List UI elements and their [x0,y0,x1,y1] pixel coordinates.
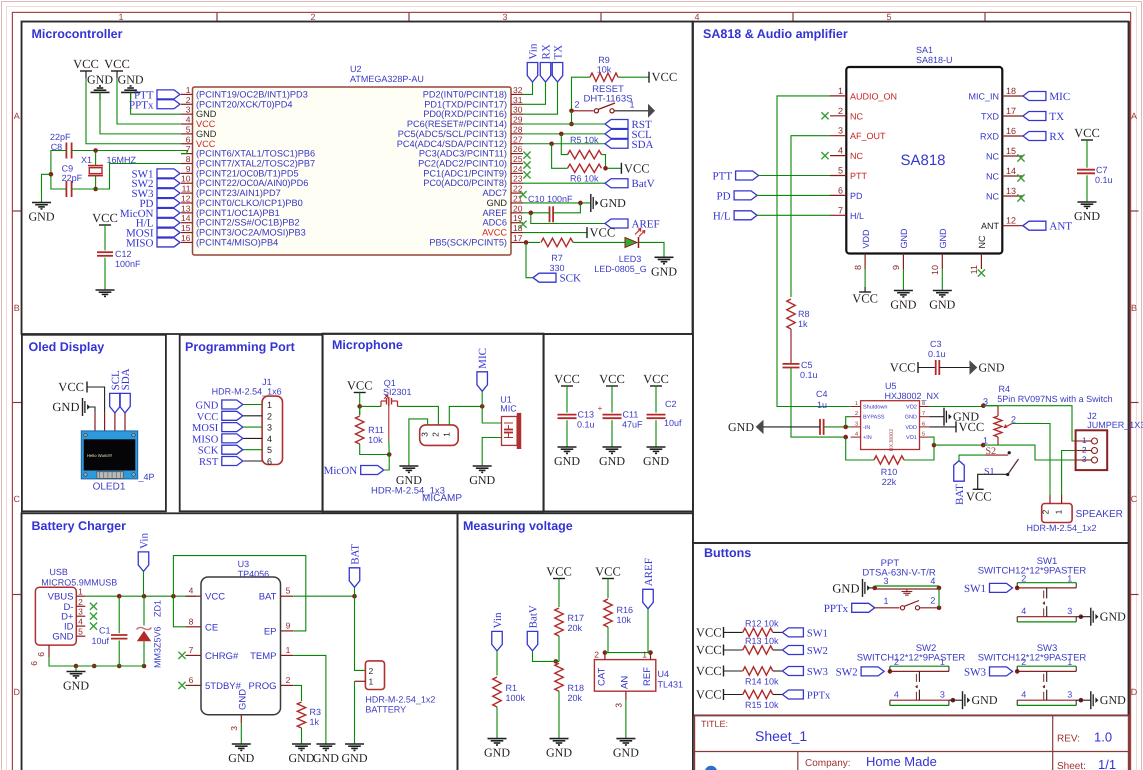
svg-text:3: 3 [883,576,888,586]
wire C12 to ground [104,258,106,290]
svg-text:R3: R3 [310,707,322,717]
wire Vin to R1 [496,651,498,676]
svg-text:1: 1 [883,596,888,606]
USB shell pin 6 [48,645,50,657]
svg-text:R11: R11 [368,425,384,435]
connector J2 JUMPER_1X3 [1076,430,1108,470]
svg-text:3: 3 [1067,690,1072,700]
svg-text:MICAMP: MICAMP [422,493,462,504]
svg-text:8: 8 [922,401,925,407]
svg-text:PPTx: PPTx [807,691,831,702]
port flag PTT [736,171,759,180]
svg-text:MISO: MISO [126,237,154,249]
junction [352,594,357,599]
capacitor C12 100nF [97,251,113,253]
net flag BatV (measuring) [527,631,538,651]
svg-text:SCK: SCK [560,273,581,285]
svg-text:23: 23 [513,174,523,184]
junction [888,669,893,674]
net flag BAT (audio) [954,461,965,482]
svg-text:(PCINT2/SS#/OC1B)PB2: (PCINT2/SS#/OC1B)PB2 [196,218,300,228]
net flag AREF (measuring) [643,589,654,609]
no-connect X SA1 pin2 [821,112,828,119]
no-connect X pin26 [523,152,530,159]
svg-text:4: 4 [189,586,194,596]
wire SW2 to gnd [949,699,963,701]
svg-text:22k: 22k [882,477,897,487]
svg-text:AREF: AREF [482,208,507,218]
svg-text:VO1: VO1 [906,435,917,441]
svg-text:R9: R9 [598,55,610,65]
svg-text:ANT: ANT [981,221,1000,231]
port flag Vin [527,63,538,83]
U2 pin 31 PD1(TXD/PCINT17) [511,103,523,105]
svg-text:GND: GND [643,454,669,468]
wire TX to pin30 [523,82,558,114]
svg-text:31: 31 [513,95,523,105]
svg-text:GND: GND [196,129,217,139]
net flag BatV [605,179,628,188]
SA1 pin 14 NC [1002,175,1023,177]
no-connect X SA1 pin14 [1017,174,1024,181]
junction [981,443,986,448]
U2 pin 13 (PCINT1/OC1A)PB1 [181,212,193,214]
svg-text:Sheet_1: Sheet_1 [755,728,807,744]
U3 pin 1 TEMP [281,654,294,656]
U5 pin 8 VO2 [920,406,930,408]
svg-text:SPEAKER: SPEAKER [1076,509,1123,520]
svg-text:8: 8 [189,616,194,626]
section box Battery Charger [22,513,458,770]
net flag SW2 to pin 10 [157,179,180,188]
net flag MISO (J1) [222,434,243,443]
svg-text:1.0: 1.0 [1094,730,1112,745]
svg-text:BYPASS: BYPASS [863,415,885,421]
svg-text:MIC: MIC [477,348,489,369]
net flag RST (J1) [222,457,243,466]
svg-text:1: 1 [1067,573,1072,583]
svg-text:VCC: VCC [643,372,669,386]
svg-text:13: 13 [1006,186,1016,196]
svg-text:18: 18 [1006,86,1016,96]
SA1 pin 12 ANT [1002,225,1023,227]
wire VCC to C12 [104,225,106,250]
wire Vin to pin32 [523,82,533,94]
svg-text:GND: GND [979,361,1005,375]
connector MICAMP HDR-M-2.54_1x3 [420,425,459,446]
svg-text:VCC: VCC [696,643,722,657]
svg-text:10uf: 10uf [91,636,109,646]
ground below U4 [616,738,635,740]
svg-text:GND: GND [972,693,998,707]
svg-text:VCC: VCC [196,139,216,149]
ground below C12 [96,289,115,291]
U3 pin 5 BAT [281,595,294,597]
capacitor C9 22pF [65,181,67,197]
svg-text:PPTx: PPTx [129,99,154,111]
wire R16 to TL431 and AREF [605,652,651,654]
switch SW2 SWITCH12*12*9PASTER [890,665,949,667]
svg-text:R5 10k: R5 10k [570,135,599,145]
U2 pin 29 PC6(RESET#/PCINT14) [511,123,523,125]
svg-text:25: 25 [513,154,523,164]
VCC flag at pin18 [586,227,588,238]
svg-text:U4: U4 [658,669,670,679]
junction [843,435,848,440]
U2 pin 16 (PCINT4/MISO)PB4 [181,241,193,243]
svg-text:GND: GND [728,420,754,434]
wire reset switch to gnd [615,110,649,112]
svg-text:C12: C12 [115,249,132,259]
wire battery pin1 to ground [354,681,356,744]
svg-text:4: 4 [1021,606,1026,616]
GND power symbol (left stack 2) [121,91,140,93]
svg-text:C9: C9 [62,164,74,174]
capacitor C2 10uf [647,414,666,416]
svg-text:GND: GND [599,454,625,468]
svg-text:VDD: VDD [905,425,917,431]
svg-text:RXD: RXD [980,132,1000,142]
wire VCC to C2 [655,386,657,413]
svg-text:MIC: MIC [500,404,517,414]
resistor R10 22k feedback [846,437,874,460]
svg-text:Microcontroller: Microcontroller [32,27,123,41]
net flag SW3 to pin 11 [157,189,180,198]
svg-text:MISO: MISO [192,434,219,445]
svg-text:GND: GND [600,196,626,210]
wire pin27 to SDA flag [523,143,605,145]
VCC flag at U5 pin6 [929,426,956,428]
svg-text:3: 3 [940,690,945,700]
U4 pin2 CAT stub [604,653,606,660]
wire XTAL2 net: C9 to pin8 [72,163,181,189]
wire pin29 to RST flag [523,123,605,125]
VCC above R16 [602,578,614,580]
svg-text:VCC: VCC [197,412,219,423]
wire MICAMP pin1 to mic node [449,406,482,425]
svg-text:1: 1 [642,650,647,660]
wire VO1 to output node [929,437,983,445]
svg-text:2: 2 [930,596,935,606]
SA1 pin 10 GND [941,254,943,270]
SA1 pin 11 NC [980,254,982,270]
svg-text:SW3: SW3 [807,667,828,678]
svg-text:GND: GND [613,746,639,760]
section box Oled Display [22,335,166,512]
svg-text:Programming Port: Programming Port [185,340,296,354]
svg-text:Vin: Vin [139,533,151,549]
svg-text:BatV: BatV [528,605,540,628]
U2 pin 22 ADC7 [511,192,523,194]
wire MICAMP pin3 to ground [409,419,428,466]
U2 pin 20 AREF [511,212,523,214]
svg-text:3: 3 [1067,606,1072,616]
svg-text:7: 7 [838,205,843,215]
svg-text:AN: AN [620,676,631,689]
ground below C2 [647,446,666,448]
svg-text:2: 2 [1082,446,1087,455]
svg-text:AREF: AREF [632,219,660,231]
wire C8/C9 left side [51,151,67,190]
svg-text:2: 2 [78,597,83,607]
svg-text:(PCINT6/XTAL1/TOSC1)PB6: (PCINT6/XTAL1/TOSC1)PB6 [196,149,315,159]
wire VCC down to node [359,393,361,416]
VCC above C11 [606,385,618,387]
svg-text:NC: NC [986,152,999,162]
svg-text:USB: USB [49,567,68,577]
port flag PD [734,191,757,200]
wire GND to oled pin [88,407,95,413]
svg-text:C13: C13 [578,410,595,420]
svg-text:ZD1: ZD1 [153,600,163,617]
wire VDD to VCC [864,269,866,287]
svg-text:7: 7 [922,411,925,417]
svg-text:SA818 & Audio amplifier: SA818 & Audio amplifier [703,27,848,41]
svg-text:30: 30 [513,105,523,115]
wire pin21 GND rail [523,202,590,204]
svg-text:2: 2 [1021,573,1026,583]
junction [1079,698,1084,703]
USB pin 1 VBUS [76,595,85,597]
wire AREF down [647,609,649,653]
switch SW1 SWITCH12*12*9PASTER [1017,582,1076,584]
svg-text:LED3: LED3 [619,254,642,264]
svg-text:B: B [14,303,20,313]
wire C2 to ground [655,420,657,447]
svg-text:R10: R10 [881,467,898,477]
svg-text:3: 3 [78,607,83,617]
no-connect X STDBY# [178,682,185,689]
svg-text:HDR-M-2.54_1x6: HDR-M-2.54_1x6 [212,387,282,397]
svg-text:SW2: SW2 [807,646,828,657]
svg-text:4: 4 [930,576,935,586]
net flag SW3 (button) [990,667,1013,676]
junction [387,452,392,457]
section box Measuring voltage [458,513,693,770]
wire GND to C4 [763,426,820,428]
ground below battery connector [345,743,364,745]
U2 pin 26 PC3(ADC3/PCINT11) [511,153,523,155]
svg-text:TP4056: TP4056 [238,569,270,579]
net flag MISO to pin 16 [157,238,180,247]
net flag ANT at pin12 [1023,221,1046,230]
svg-text:DHT-1163S: DHT-1163S [584,94,633,105]
GND flag at pin21 [590,194,592,212]
svg-text:(PCINT20/XCK/T0)PD4: (PCINT20/XCK/T0)PD4 [196,99,293,109]
svg-text:1: 1 [983,436,988,446]
wire BAT to S2 [959,455,986,461]
svg-text:H/L: H/L [850,211,864,221]
svg-text:PD1(TXD/PCINT17): PD1(TXD/PCINT17) [424,99,507,109]
U2 pin 11 (PCINT23/AIN1)PD7 [181,192,193,194]
no-connect X USB ID [90,623,97,630]
svg-text:PTT: PTT [850,171,868,181]
wire H/L to pin7 [757,214,830,216]
svg-text:3: 3 [229,726,239,731]
svg-text:VCC: VCC [205,592,225,603]
wire BAT net [293,595,354,597]
OLED1 module pins [94,413,96,431]
svg-text:GND: GND [890,298,916,312]
wire CE to VBUS [173,596,185,627]
svg-text:+: + [598,404,603,413]
svg-text:X1: X1 [81,155,92,165]
U3 pin 9 EP [281,630,294,632]
svg-text:22pF: 22pF [62,173,83,183]
svg-text:(PCINT22/OC0A/AIN0)PD6: (PCINT22/OC0A/AIN0)PD6 [196,178,308,188]
svg-text:SCK: SCK [198,446,219,457]
svg-text:(PCINT4/MISO)PB4: (PCINT4/MISO)PB4 [196,237,278,247]
svg-text:6: 6 [189,675,194,685]
svg-text:3: 3 [614,703,624,708]
U2 pin 21 GND [511,202,523,204]
svg-text:24: 24 [513,164,523,174]
svg-text:32: 32 [513,85,523,95]
U2 pin 12 (PCINT0/CLKO/ICP1)PB0 [181,202,193,204]
GND flag right of C3 [970,360,978,374]
section box decoupling caps [544,334,693,511]
port flag SDA (oled) [120,393,131,413]
wire VO2 to R4 pin3 [929,406,983,408]
svg-text:PC5(ADC5/SCL/PCINT13): PC5(ADC5/SCL/PCINT13) [398,129,507,139]
svg-text:C3: C3 [930,339,942,349]
GND flag at SW1 [1090,608,1092,626]
svg-text:HXJ8002_NX: HXJ8002_NX [885,391,940,401]
GND power symbol (left stack 1) [91,91,110,93]
no-connect X USB D- [90,603,97,610]
svg-text:R6 10k: R6 10k [570,174,599,184]
U2 pin 10 (PCINT22/OC0A/AIN0)PD6 [181,182,193,184]
U2 pin 27 PC4(ADC4/SDA/PCINT12) [511,143,523,145]
junctions on VBUS rail [117,594,122,599]
port flag MIC (microphone) [477,372,488,392]
svg-text:2: 2 [1021,657,1026,667]
U2 pin 17 PB5(SCK/PCINT5) [511,241,523,243]
SA1 pin 5 PTT [830,175,846,177]
net flag TX at pin17 [1023,112,1046,121]
easyeda logo [705,766,717,770]
SA1 pin 6 PD [830,194,846,196]
svg-text:H/L: H/L [713,210,731,222]
ground below R18 [550,738,569,740]
USB pin 3 D+ [76,615,85,617]
svg-text:3: 3 [983,397,988,407]
svg-text:3: 3 [420,432,430,437]
svg-text:R18: R18 [568,683,585,693]
shunt reference U4 TL431 [594,660,655,692]
GND flag left of C4 [756,420,764,434]
U3 pin 8 CE [186,626,202,628]
svg-text:CAT: CAT [597,668,608,686]
VCC below pin8 [859,291,871,293]
svg-text:10k: 10k [597,65,612,75]
junction [569,122,574,127]
battery connector HDR-M-2.54_1x2 [365,661,384,690]
svg-text:GND: GND [905,415,917,421]
wire C11 to ground [611,420,613,447]
net flag VCC (J1) [222,411,243,420]
resistor R17 20k [555,608,563,636]
VCC symbol (microphone) [354,392,366,394]
junction [843,425,848,430]
svg-text:GND: GND [196,109,217,119]
VCC power symbol (left stack 2) [111,70,123,72]
net flag PPTx to pin2 [157,100,180,109]
wire VCC2 to pin4 [116,71,118,78]
junction [357,404,362,409]
svg-text:AREF: AREF [643,558,655,586]
ground below C13 [558,446,577,448]
svg-text:1: 1 [286,645,291,655]
connector SPEAKER HDR-M-2.54_1x2 [1042,504,1072,523]
VCC above R17 [553,578,565,580]
PPT switch frame ground [906,589,908,592]
radio module SA1 SA818-U [846,67,1002,254]
junction [554,659,559,664]
port flag RX [540,63,551,83]
svg-text:EP: EP [264,626,277,637]
svg-text:SDA: SDA [120,368,132,390]
svg-text:GND: GND [484,746,510,760]
no-connect X USB D+ [90,613,97,620]
switch SW3 SWITCH12*12*9PASTER [1017,665,1076,667]
U2 pin 25 PC2(ADC2/PCINT10) [511,162,523,164]
svg-text:GND: GND [52,632,73,643]
wire BAT down to battery connector [355,596,366,670]
junction [981,403,986,408]
svg-text:10: 10 [930,265,940,275]
svg-text:0.1u: 0.1u [800,370,818,380]
svg-text:10k: 10k [617,615,632,625]
svg-text:PC1(ADC1/PCINT9): PC1(ADC1/PCINT9) [423,168,507,178]
resistor R18 20k [555,663,563,691]
wire AUDIO_ON net down to amplifier shutdown [777,96,851,407]
wire VCC to C13 [566,386,568,413]
svg-text:(PCINT7/XTAL2/TOSC2)PB7: (PCINT7/XTAL2/TOSC2)PB7 [196,158,315,168]
svg-text:17: 17 [513,233,523,243]
wire mic+ [482,406,501,423]
svg-text:U3: U3 [238,559,250,569]
svg-text:R4: R4 [999,384,1011,394]
SA1 pin 18 MIC_IN [1002,95,1023,97]
U5 pin 1 Shutdown [851,406,861,408]
svg-text:TX: TX [553,45,565,60]
svg-text:100nF: 100nF [115,259,141,269]
R4 wiper arrow [1005,424,1013,428]
junction [603,650,608,655]
svg-text:21: 21 [513,193,523,203]
svg-text:2: 2 [369,666,374,676]
svg-text:NC: NC [986,172,999,182]
svg-text:2: 2 [1041,509,1051,514]
svg-text:C7: C7 [1096,165,1108,175]
wire SCL to R5 [561,134,567,155]
svg-text:2: 2 [286,675,291,685]
svg-text:PC3(ADC3/PCINT11): PC3(ADC3/PCINT11) [419,149,507,159]
VCC bar below S1 [973,488,984,490]
wire Vin down to VBUS rail [143,571,145,596]
svg-text:B: B [1131,303,1137,313]
svg-text:GND: GND [289,751,315,765]
svg-text:Vin: Vin [528,43,540,59]
wire J2 pin2 to speaker pin1 [1062,451,1076,496]
svg-text:VCC: VCC [1074,126,1100,140]
svg-text:R16: R16 [617,605,634,615]
ground below crystal [32,202,51,204]
svg-text:100k: 100k [506,693,526,703]
svg-text:1: 1 [369,677,374,687]
junction [524,240,529,245]
